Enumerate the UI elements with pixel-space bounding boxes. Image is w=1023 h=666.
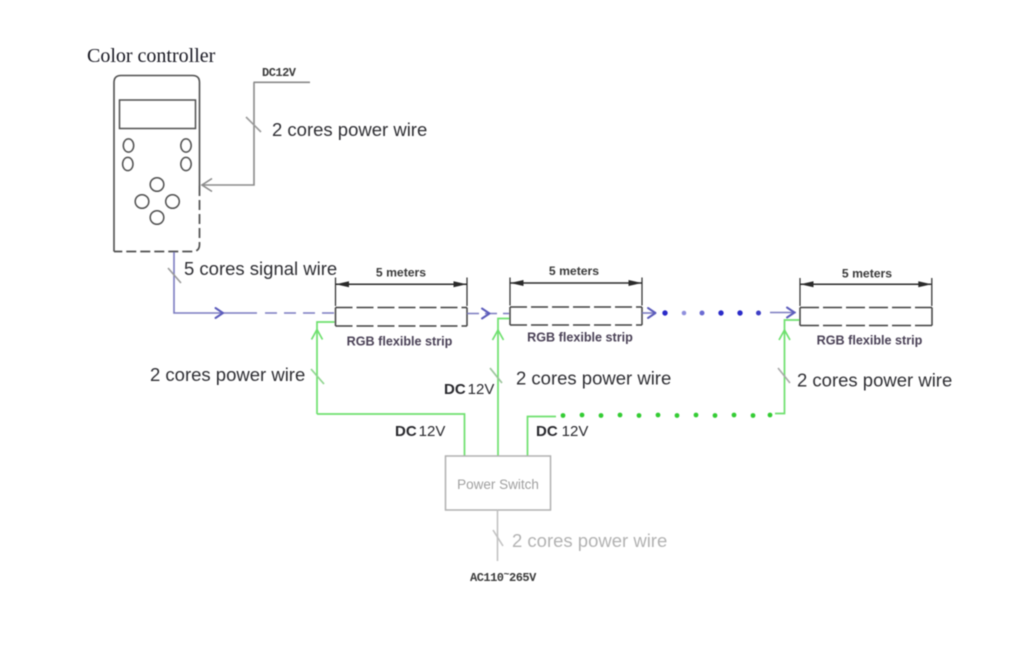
wire green riser to strip3 — [775, 320, 800, 414]
controller d-pad left button — [135, 195, 149, 209]
controller button row 1 right — [181, 139, 191, 152]
svg-text:2 cores power wire: 2 cores power wire — [797, 370, 952, 391]
svg-text:5 cores signal wire: 5 cores signal wire — [184, 258, 337, 279]
wire blue stub into strip3 — [770, 312, 796, 314]
svg-text:5 meters: 5 meters — [842, 267, 892, 281]
label 5 meters strip 3 — [842, 267, 892, 281]
label AC110~265V — [470, 570, 537, 585]
label RGB flexible strip 1 — [347, 335, 453, 349]
arrowhead on signal wire — [216, 308, 224, 318]
wire DC12V horizontal stub — [254, 81, 311, 83]
controller d-pad right button — [166, 195, 180, 209]
label 2 cores power wire (right) — [797, 370, 952, 391]
svg-text:2 cores power wire: 2 cores power wire — [512, 530, 667, 551]
label DC12V (left of power switch) — [395, 423, 445, 440]
color controller U1 body — [114, 76, 200, 252]
label DC12V (top) — [262, 66, 297, 80]
label 2 cores power wire (top) — [272, 119, 427, 140]
tick mark on riser2 — [490, 368, 502, 383]
label 5 meters strip 2 — [549, 264, 599, 278]
RGB strip 3 — [800, 308, 932, 326]
label 5 meters strip 1 — [376, 266, 426, 280]
wire power wire vertical into controller — [203, 82, 254, 185]
RGB strip 1 — [336, 308, 468, 327]
wire green riser to strip2 — [498, 319, 510, 457]
tick mark on riser3 — [778, 368, 790, 383]
label RGB flexible strip 2 — [527, 331, 633, 345]
tick mark on AC wire — [493, 530, 503, 546]
arrowhead blue link 1-2 — [482, 309, 490, 319]
arrowhead into controller (open) — [202, 179, 212, 192]
svg-text:5 meters: 5 meters — [376, 266, 426, 280]
wire green right branch from power switch — [528, 417, 557, 457]
wire green horizontal to power switch left — [317, 414, 465, 456]
wire gray AC input below power switch — [497, 510, 499, 561]
label 2 cores power wire (left) — [150, 364, 305, 385]
label DC 12V (right of power switch) — [536, 423, 588, 440]
power switch box — [446, 456, 551, 510]
svg-text:DC12V: DC12V — [262, 66, 297, 80]
dimension 5 meters strip 3 — [800, 278, 932, 306]
svg-text:2 cores power wire: 2 cores power wire — [150, 364, 305, 385]
svg-text:Power Switch: Power Switch — [457, 477, 539, 492]
label RGB flexible strip 3 — [817, 334, 923, 348]
arrowhead up on riser1 (open) — [312, 330, 323, 340]
tick mark on riser1 — [311, 369, 324, 384]
wire blue stub after strip2 — [642, 312, 654, 314]
wire 5 cores signal wire (blue, from controller) — [174, 252, 335, 313]
dimension 5 meters strip 1 — [336, 278, 468, 307]
svg-text:RGB flexible strip: RGB flexible strip — [527, 331, 633, 345]
controller button row 2 left — [123, 157, 133, 170]
label 2 cores power wire (middle) — [516, 368, 671, 389]
tick mark on signal wire — [168, 268, 181, 283]
controller button row 2 right — [181, 157, 191, 170]
controller button row 1 left — [123, 139, 133, 152]
label 5 cores signal wire — [184, 258, 337, 279]
controller d-pad bottom button — [150, 211, 164, 225]
svg-text:DC12V: DC12V — [444, 381, 494, 398]
green continuation dots — [561, 413, 773, 418]
arrowhead up on riser2 (open) — [493, 330, 504, 340]
arrowhead up on riser3 (open) — [779, 330, 790, 340]
wire blue link strip1 to strip2 — [467, 313, 509, 315]
label DC12V (middle riser) — [444, 381, 494, 398]
svg-text:2 cores power wire: 2 cores power wire — [516, 368, 671, 389]
wire green riser to strip1 — [317, 322, 335, 414]
label Color controller — [87, 45, 216, 67]
svg-text:DC12V: DC12V — [395, 423, 445, 440]
RGB strip 2 — [510, 307, 642, 325]
controller LCD display — [120, 100, 196, 129]
arrowhead after strip2 — [648, 308, 656, 318]
svg-text:2 cores power wire: 2 cores power wire — [272, 119, 427, 140]
svg-text:5 meters: 5 meters — [549, 264, 599, 278]
label Power Switch — [457, 477, 539, 492]
label 2 cores power wire (gray bottom) — [512, 530, 667, 551]
svg-text:DC12V: DC12V — [536, 423, 588, 440]
controller d-pad top button — [150, 178, 164, 192]
dimension 5 meters strip 2 — [510, 278, 642, 306]
blue continuation dots — [662, 310, 761, 315]
svg-text:RGB flexible strip: RGB flexible strip — [817, 334, 923, 348]
svg-text:RGB flexible strip: RGB flexible strip — [347, 335, 453, 349]
svg-text:Color controller: Color controller — [87, 45, 216, 67]
tick mark on power wire — [246, 117, 261, 132]
arrowhead into strip3 — [787, 308, 795, 318]
